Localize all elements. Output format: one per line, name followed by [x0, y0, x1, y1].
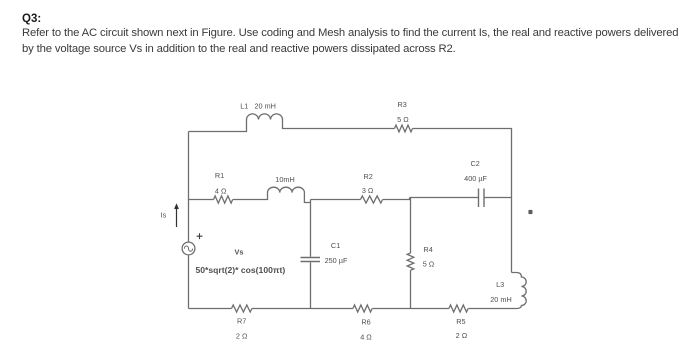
svg-text:C1: C1: [331, 241, 340, 250]
svg-text:2 Ω: 2 Ω: [456, 331, 468, 340]
svg-text:250 µF: 250 µF: [325, 256, 348, 265]
svg-text:2 Ω: 2 Ω: [236, 331, 248, 340]
svg-text:20 mH: 20 mH: [254, 102, 276, 111]
svg-text:400 µF: 400 µF: [464, 174, 487, 183]
svg-text:4 Ω: 4 Ω: [215, 187, 227, 196]
svg-text:L1: L1: [240, 102, 248, 111]
svg-text:Is: Is: [161, 211, 167, 220]
svg-text:20 mH: 20 mH: [490, 295, 512, 304]
svg-text:C2: C2: [471, 159, 480, 168]
svg-text:5 Ω: 5 Ω: [397, 115, 409, 124]
svg-text:R3: R3: [398, 100, 407, 109]
svg-text:L3: L3: [496, 280, 504, 289]
svg-text:3 Ω: 3 Ω: [362, 186, 374, 195]
svg-text:R5: R5: [456, 317, 465, 326]
svg-text:5 Ω: 5 Ω: [423, 259, 435, 268]
svg-text:R1: R1: [215, 171, 224, 180]
svg-text:4 Ω: 4 Ω: [360, 332, 372, 341]
svg-text:R2: R2: [364, 172, 373, 181]
svg-text:50*sqrt(2)* cos(100πt): 50*sqrt(2)* cos(100πt): [196, 265, 286, 275]
svg-text:10mH: 10mH: [275, 175, 294, 184]
svg-text:R4: R4: [423, 245, 432, 254]
svg-text:Vs: Vs: [235, 248, 244, 257]
svg-text:R7: R7: [237, 317, 246, 326]
svg-text:R6: R6: [361, 317, 370, 326]
